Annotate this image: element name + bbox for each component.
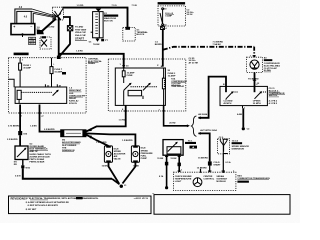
svg-text:15 BK: 15 BK <box>170 158 177 160</box>
wire ignition branch dash-dot <box>163 41 256 57</box>
wire battery clamp to junction <box>42 19 57 32</box>
temperature switch dashed box <box>218 137 230 154</box>
a/c compressor clutch dashed box <box>247 57 263 72</box>
svg-text:BLOCK: BLOCK <box>137 34 145 36</box>
svg-text:VIM A CHF: VIM A CHF <box>75 31 87 34</box>
wire fan to solenoid Y4 <box>86 133 135 146</box>
svg-text:1.5 BK/RD: 1.5 BK/RD <box>122 140 133 142</box>
wire starter ground <box>15 160 112 179</box>
fuse inside relay <box>122 68 135 83</box>
label rows module left <box>175 176 192 183</box>
relay module dashed box <box>108 59 186 111</box>
svg-text:BOX ON: BOX ON <box>104 21 113 23</box>
solenoid valve Y3 <box>104 146 112 163</box>
label rows right of module <box>189 58 199 65</box>
label K9 overload relay rows <box>69 88 85 106</box>
wire kickdown right down <box>178 155 183 172</box>
svg-text:FUSE: FUSE <box>127 75 133 77</box>
svg-text:+ 42 D1 HY 19: + 42 D1 HY 19 <box>134 197 149 200</box>
svg-text:30 MPH: 30 MPH <box>253 103 261 105</box>
relay contact blades <box>124 83 158 105</box>
connector X35 on wire A <box>18 131 28 135</box>
wire ignition down <box>155 30 163 67</box>
fuse F1 30A <box>19 58 32 88</box>
wire panel left stub <box>8 79 14 87</box>
svg-text:1.5 BK/RD: 1.5 BK/RD <box>96 142 107 144</box>
wire branch to pressure switch <box>198 77 226 120</box>
svg-text:2.5 BK/RD: 2.5 BK/RD <box>7 139 18 141</box>
svg-text:15 BK: 15 BK <box>157 158 164 160</box>
clutch motor symbol <box>250 60 259 69</box>
wire top bus corner down <box>127 8 129 28</box>
wire feed to relay module <box>59 51 124 68</box>
label rows Y4 <box>141 148 154 160</box>
connector X26 dashed box <box>123 27 135 41</box>
label A9 clutch rows <box>264 57 281 73</box>
svg-text:15 BK: 15 BK <box>102 165 109 167</box>
svg-text:+: + <box>13 25 15 29</box>
wire kickdown left down <box>159 155 168 189</box>
svg-text:MODULE: MODULE <box>216 181 226 183</box>
svg-text:2.5 RD: 2.5 RD <box>48 27 55 29</box>
svg-text:PINTS 25 BAR: PINTS 25 BAR <box>29 158 44 161</box>
svg-text:0.5 M: 0.5 M <box>15 175 21 177</box>
pressure switch box S25 <box>220 84 267 105</box>
svg-text:1.5 RD: 1.5 RD <box>77 5 84 7</box>
svg-text:45 MPH: 45 MPH <box>223 102 231 105</box>
svg-text:7.5 B: 7.5 B <box>132 5 138 7</box>
fuse box F1 plug <box>96 9 102 12</box>
label M1 RD <box>14 161 18 166</box>
label C2 rows right of ignition <box>187 9 195 16</box>
fan symbol in module <box>193 178 202 187</box>
svg-text:PANEL: PANEL <box>88 62 96 65</box>
label rows right of module <box>233 170 270 182</box>
svg-text:TEMPERATURE: TEMPERATURE <box>175 177 192 180</box>
svg-text:AN 2H04: AN 2H04 <box>198 113 208 116</box>
wire S25 bottom <box>237 106 250 131</box>
junction connector X4 box <box>52 7 63 20</box>
wire branch to transmission module <box>198 129 221 172</box>
svg-text:7H BK: 7H BK <box>93 44 100 46</box>
label rows module right <box>216 175 227 183</box>
ignition switch header bar <box>158 2 186 5</box>
svg-text:G REP WITH HOLD ED B/STD: G REP WITH HOLD ED B/STD <box>28 205 59 207</box>
fuse/relay panel dashed box <box>8 58 86 113</box>
svg-text:1.5 BK: 1.5 BK <box>30 125 37 127</box>
ignition switch contacts <box>160 8 167 27</box>
terminal ticks on module top <box>178 170 225 172</box>
svg-text:N4/1: N4/1 <box>237 174 242 177</box>
svg-text:RELAY: RELAY <box>69 97 77 100</box>
svg-text:② MY NET: ② MY NET <box>26 208 37 211</box>
svg-text:A BK: A BK <box>237 113 243 116</box>
svg-text:KOHI N: KOHI N <box>69 103 77 105</box>
wire branch to connector <box>63 17 70 26</box>
inline coupler with X caps <box>61 130 86 137</box>
relay module solid box <box>115 68 165 105</box>
svg-text:AND OF: AND OF <box>29 150 38 153</box>
wire fan to relay exit <box>86 105 126 131</box>
svg-text:C2 0: C2 0 <box>219 137 224 139</box>
battery G1 <box>11 24 35 37</box>
terminal 30 entry <box>120 64 130 67</box>
svg-text:SLIDE CABLE 7H/7H: SLIDE CABLE 7H/7H <box>29 153 51 156</box>
terminal tick left exit <box>124 110 127 112</box>
svg-text:RELAY: RELAY <box>29 42 35 45</box>
wire A starter feed <box>8 105 23 132</box>
svg-text:REVISIONS:: REVISIONS: <box>11 196 27 200</box>
revisions box <box>9 196 152 214</box>
wire temp switch down <box>223 154 231 173</box>
terminal 87 bottom <box>159 109 166 111</box>
label CABLE CONN RELAY stack <box>29 37 36 45</box>
label rows Y3 <box>114 148 126 160</box>
svg-text:SEDAN: SEDAN <box>216 175 224 178</box>
svg-text:CONTROL: CONTROL <box>203 178 214 180</box>
svg-text:RD: RD <box>14 164 18 166</box>
label text THIS VIEW START <box>75 26 87 41</box>
connector battery terminal clamp <box>37 30 44 34</box>
svg-text:10 AMP: 10 AMP <box>127 72 135 75</box>
svg-text:IGNITION STARTER SWITCH: IGNITION STARTER SWITCH <box>158 2 184 5</box>
label X26 rows <box>137 29 149 36</box>
svg-text:TO BK/RD: TO BK/RD <box>248 78 259 80</box>
svg-text:W10: W10 <box>26 168 31 170</box>
svg-text:6 AMP: 6 AMP <box>165 14 172 17</box>
svg-text:TIME RELAY: TIME RELAY <box>171 85 185 88</box>
label rows right of S25 <box>269 88 285 105</box>
ground funnel W10 <box>109 162 136 188</box>
svg-text:1.5 RD: 1.5 RD <box>76 51 83 53</box>
svg-text:AUT WITH 2H04: AUT WITH 2H04 <box>200 129 217 132</box>
svg-text:30 2H: 30 2H <box>187 14 193 16</box>
svg-text:FUSE BOX: FUSE BOX <box>14 54 24 56</box>
svg-text:2.5 BK/RD: 2.5 BK/RD <box>44 129 55 131</box>
relay output wire to brace <box>164 105 190 127</box>
starter motor M1 <box>15 146 28 160</box>
svg-text:AIR: AIR <box>114 155 118 158</box>
svg-text:FUSE BOX: FUSE BOX <box>105 15 114 17</box>
svg-text:4-1 FB 2: 4-1 FB 2 <box>269 102 278 105</box>
svg-text:16 AMP: 16 AMP <box>54 70 62 73</box>
transmission control module dashed box <box>173 172 236 190</box>
svg-text:START: START <box>75 37 84 41</box>
svg-text:0.75 BK/RD: 0.75 BK/RD <box>8 125 20 127</box>
svg-text:SCHEMAT: SCHEMAT <box>216 177 227 180</box>
svg-text:AT 30 HH: AT 30 HH <box>189 62 199 65</box>
svg-text:TO AND: TO AND <box>75 26 84 29</box>
label rows module middle <box>203 176 214 181</box>
kickdown solenoid box <box>163 140 183 156</box>
svg-text:25 RD: 25 RD <box>169 123 176 125</box>
fuse box F1 <box>91 12 104 38</box>
connector below ignition <box>161 26 168 30</box>
wire clutch to switch box <box>248 72 260 86</box>
label chip N <box>62 72 66 75</box>
svg-text:PUMP: PUMP <box>141 158 148 160</box>
title block box <box>153 193 291 214</box>
svg-text:LIGHT: LIGHT <box>175 181 182 183</box>
wire A lower <box>7 135 20 146</box>
svg-text:4-1 FB 2: 4-1 FB 2 <box>269 100 278 103</box>
label rows inside relay right <box>168 70 188 88</box>
wire B solenoid feed <box>30 105 61 132</box>
svg-text:DIMENSION: DIMENSION <box>232 149 245 151</box>
svg-text:① A REP ORTASED 45 A R SETUAT: ① A REP ORTASED 45 A R SETUATED RE <box>26 201 70 204</box>
svg-text:BK/RD: BK/RD <box>155 44 162 46</box>
svg-text:ADJUSTER: ADJUSTER <box>114 153 126 156</box>
terminal tick ignition entry <box>157 65 164 67</box>
svg-text:0.5 A: 0.5 A <box>225 161 231 164</box>
svg-text:15 BK/RD: 15 BK/RD <box>198 157 208 159</box>
wire top bus <box>63 7 129 9</box>
stub terminal 15BKRD <box>197 167 207 172</box>
wire battery positive cable loop <box>15 9 57 24</box>
svg-text:−: − <box>30 25 32 29</box>
svg-text:PINTB 25 BAR: PINTB 25 BAR <box>29 161 44 164</box>
svg-text:THIS VIEW: THIS VIEW <box>75 29 87 31</box>
ignition switch dashed box <box>158 6 186 26</box>
svg-text:START: START <box>213 163 221 166</box>
wire connector down to panel entry <box>60 31 70 56</box>
svg-text:7.5A BK: 7.5A BK <box>213 43 222 46</box>
label F1 black bar <box>104 13 118 23</box>
junction X wires <box>53 8 63 20</box>
wire main feed down to panel <box>57 17 61 59</box>
svg-text:1.5 RD: 1.5 RD <box>119 119 126 121</box>
connector 30A X-box <box>67 26 72 31</box>
label chips right of kickdown <box>185 140 197 148</box>
callout bracket <box>223 139 249 153</box>
panel header bar <box>14 53 29 56</box>
ground arrow G1 under fuse box <box>89 38 109 46</box>
connector X-box below battery <box>40 36 51 49</box>
svg-text:10.5 A: 10.5 A <box>232 139 239 142</box>
solenoid valve Y4 <box>131 146 139 163</box>
brace split <box>191 116 196 137</box>
label rows starter <box>29 143 51 163</box>
relay resistor branch <box>162 68 165 105</box>
svg-text:a .: a . <box>153 193 156 195</box>
svg-text:K2HO AJ: K2HO AJ <box>69 100 79 103</box>
svg-text:7.5 S: 7.5 S <box>112 5 118 7</box>
label EZL 6 AMP <box>165 13 174 18</box>
svg-text:VALVE: VALVE <box>114 158 122 161</box>
svg-text:30 AMP: 30 AMP <box>23 66 31 69</box>
fuse F4 <box>50 58 63 88</box>
relay K1 box <box>15 84 67 103</box>
connector X26 plug <box>125 27 130 30</box>
label rows under coupler <box>62 140 81 152</box>
svg-text:25 BRN 4TH B/CAN: 25 BRN 4TH B/CAN <box>29 155 49 158</box>
label CENTRAL ELECTRICAL PANEL <box>88 57 103 65</box>
label 1.0 RD <box>37 27 41 31</box>
svg-text:16 AMP: 16 AMP <box>168 74 176 77</box>
wire fan to solenoid Y3 <box>86 135 109 146</box>
kickdown bottom terminals <box>157 156 181 159</box>
svg-text:15 BK/RD: 15 BK/RD <box>197 167 207 169</box>
